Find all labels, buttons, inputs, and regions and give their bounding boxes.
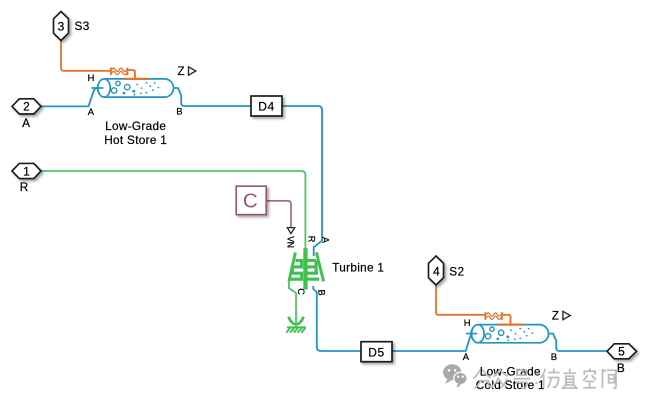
svg-text:Turbine 1: Turbine 1 xyxy=(332,261,384,275)
svg-text:VN: VN xyxy=(286,236,296,247)
svg-text:B: B xyxy=(317,290,327,296)
svg-text:D4: D4 xyxy=(258,100,275,114)
svg-text:2: 2 xyxy=(23,100,30,114)
svg-text:B: B xyxy=(617,361,625,375)
svg-text:R: R xyxy=(20,180,29,194)
svg-text:C: C xyxy=(243,190,258,213)
svg-text:S2: S2 xyxy=(449,264,464,278)
svg-text:Z: Z xyxy=(178,66,185,78)
svg-text:C: C xyxy=(296,288,306,295)
svg-text:1: 1 xyxy=(23,164,30,178)
svg-text:4: 4 xyxy=(433,264,440,278)
svg-text:Hot Store 1: Hot Store 1 xyxy=(104,133,167,147)
svg-text:3: 3 xyxy=(58,19,65,33)
svg-text:A: A xyxy=(321,237,331,244)
svg-text:5: 5 xyxy=(618,345,625,359)
svg-text:A: A xyxy=(22,116,30,130)
svg-text:Z: Z xyxy=(552,310,559,322)
svg-text:S3: S3 xyxy=(75,19,90,33)
svg-text:Low-Grade: Low-Grade xyxy=(105,119,166,133)
svg-text:B: B xyxy=(176,107,182,118)
svg-text:R: R xyxy=(306,236,316,243)
svg-text:B: B xyxy=(551,352,557,363)
svg-text:A: A xyxy=(463,352,470,363)
svg-text:A: A xyxy=(88,107,95,118)
svg-text:H: H xyxy=(464,318,471,329)
svg-text:H: H xyxy=(88,73,95,84)
svg-text:D5: D5 xyxy=(368,345,385,359)
